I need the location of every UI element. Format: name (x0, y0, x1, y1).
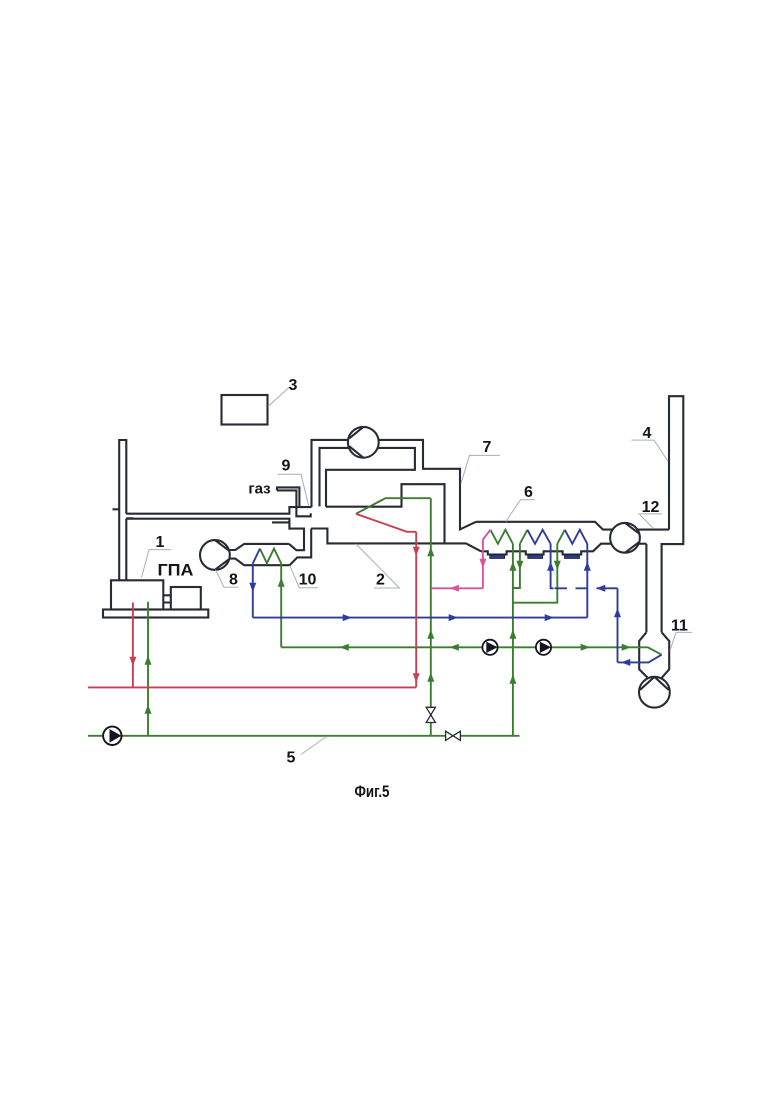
blue right leg of coil 2 with elbow (551, 544, 554, 589)
green down arrow on coil 2 hook (516, 561, 523, 570)
air recirculation loop inner wall (320, 448, 415, 507)
circulation pump right on line (536, 640, 551, 655)
fan under economizer 11 (639, 677, 670, 708)
combustion chamber 2 top wall and riser to duct 7 (326, 484, 481, 551)
leader label 7 (461, 439, 500, 484)
green bottom main water line 5 (88, 735, 520, 737)
leader label 12 (638, 499, 662, 528)
leader label 11 (670, 618, 692, 651)
green left arrows on circulation line (340, 644, 349, 651)
svg-text:1: 1 (156, 534, 165, 551)
red down arrows on chamber riser (413, 547, 420, 556)
blue outlet from economizer 11 (618, 655, 662, 663)
damper tick on stack right wall (126, 517, 133, 519)
blue main line to coil 3 (253, 617, 588, 619)
green up arrows on GPA riser (145, 656, 152, 665)
combustion chamber 2 left and bottom wall (311, 529, 444, 544)
GPA foundation plate (103, 610, 208, 618)
exchanger 6 water tray 2 (528, 555, 543, 559)
riser duct left wall (exchanger 10 to burner) (289, 522, 304, 550)
green riser line from GPA (147, 602, 149, 736)
duct from fan 12 to stack 4 top wall (637, 529, 669, 531)
pink stroke of coil 1 (483, 530, 491, 540)
duct from fan 12 bottom wall (639, 543, 647, 545)
blue leg from air heater 10 down (252, 563, 254, 617)
air heater 10 bottom wall (230, 559, 290, 566)
flame green upper line in chamber 2 (356, 498, 431, 514)
leader label 1 (142, 534, 172, 578)
svg-text:Фиг.5: Фиг.5 (355, 782, 390, 801)
leader label 2 (356, 544, 400, 589)
green up arrows on chamber water line (427, 547, 434, 556)
exhaust stack 4 (662, 396, 684, 632)
coil 3 green stroke (557, 530, 565, 544)
svg-text:ГПА: ГПА (158, 561, 194, 580)
blue dashed return line (555, 587, 605, 589)
blue dashed line solid end into riser corner (603, 587, 618, 589)
riser duct right wall (290, 529, 312, 566)
svg-text:11: 11 (671, 618, 688, 635)
svg-text:5: 5 (287, 750, 296, 767)
green heating water line from chamber down to bottom main (430, 498, 432, 736)
fan 8 (air blower) (200, 540, 230, 570)
blue right leg of coil 3 (586, 544, 588, 618)
leader label 8 (216, 570, 239, 589)
damper tick on stack left wall (113, 508, 120, 510)
svg-text:2: 2 (376, 572, 385, 589)
red down arrow from GPA (129, 657, 136, 666)
green right arrows on circulation line (581, 644, 590, 651)
coil 2 blue part (527, 530, 550, 544)
green hook from coil 2 left leg (513, 544, 520, 588)
svg-text:6: 6 (524, 484, 533, 501)
red line from GPA down (132, 603, 134, 688)
exchanger 6 water tray 1 (490, 555, 505, 559)
pink horizontal drain to green junction (431, 587, 483, 589)
green circulation line with pumps to economizer 11 (281, 647, 661, 654)
svg-text:3: 3 (289, 377, 298, 394)
svg-text:4: 4 (643, 425, 652, 442)
gas pipe inner wall with J-hook (277, 490, 311, 516)
svg-text:газ: газ (248, 481, 270, 498)
svg-text:10: 10 (299, 572, 317, 589)
green drain from coil 3 left leg (513, 544, 557, 603)
GPA small housing box (171, 587, 201, 610)
blue left arrow on dashed line (596, 585, 605, 592)
green up arrows on leg A (509, 562, 516, 571)
pink drain leg of coil 1 (482, 540, 484, 589)
blue down arrow on air heater leg (249, 583, 256, 592)
air heater 10 top wall (230, 544, 289, 550)
coil 1 green part (490, 530, 513, 544)
control unit box 3 (222, 395, 268, 425)
svg-text:7: 7 (483, 439, 492, 456)
circulation pump left on line (482, 640, 497, 655)
green leg A under coil 1 down to bottom main (512, 544, 514, 736)
air recirculation loop outer wall (312, 440, 477, 530)
coil 3 blue part (565, 530, 588, 544)
red bottom horizontal line (88, 686, 416, 688)
blue up arrow on economizer riser (614, 608, 621, 617)
valve on green chamber line (426, 707, 435, 722)
leader label 6 (506, 484, 535, 522)
flame red lower line in chamber 2 (356, 514, 416, 532)
green leg up into air heater 10 (280, 563, 282, 647)
blue riser from economizer 11 (617, 588, 619, 662)
air heater 10 coil blue stroke (253, 549, 260, 564)
leader label 4 (632, 425, 668, 461)
heat exchanger 6 top wall (476, 522, 613, 530)
svg-text:9: 9 (282, 457, 291, 474)
smoke exhauster 12 (610, 523, 640, 553)
recirculation fan on loop (348, 427, 379, 458)
leader label 3 (268, 377, 298, 407)
blue right arrows on main line (343, 614, 352, 621)
blue up arrows on coil legs (584, 562, 591, 571)
blue left arrow on economizer outlet (621, 659, 630, 666)
gas pipe outer wall (277, 487, 299, 507)
feed pump on bottom line 5 (103, 727, 121, 745)
valve on bottom line 5 (446, 731, 461, 740)
pink down arrow on coil 1 drain (479, 559, 486, 568)
leader label 10 (290, 566, 318, 589)
exhaust duct upper wall (stack to burner 9) (126, 507, 311, 514)
exhaust duct lower wall (126, 519, 289, 523)
contact economizer 11 body left wall (639, 632, 648, 678)
red riser to chamber 2 (415, 532, 417, 688)
green up arrow into air heater 10 (278, 578, 285, 587)
exhaust stack right wall lower part (125, 519, 127, 581)
GPA big housing box (111, 580, 163, 609)
leader label 9 (278, 457, 309, 506)
svg-text:8: 8 (229, 572, 238, 589)
coil 2 green stroke (520, 530, 528, 544)
pink left arrow on drain horizontal (450, 585, 459, 592)
leader label 5 (287, 737, 327, 767)
contact economizer 11 body right wall (662, 632, 670, 678)
exchanger 6 water tray 3 (565, 555, 580, 559)
heat exchanger 6 bottom wall with notches (481, 544, 611, 555)
downcomer to contact economizer left wall (645, 544, 647, 633)
air heater 10 coil green part (260, 549, 281, 564)
svg-text:12: 12 (642, 499, 660, 516)
exhaust stack (left, on GPA) (119, 440, 126, 580)
green down arrow on coil 3 drain (554, 561, 561, 570)
GPA coupling lines (163, 595, 171, 602)
